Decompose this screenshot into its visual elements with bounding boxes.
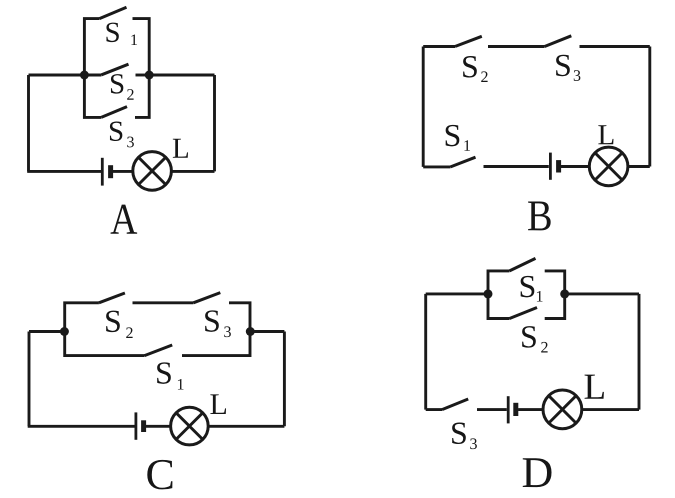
label S3 (A) [110, 121, 122, 140]
switch S2 (C) [65, 293, 125, 332]
wire C right horizontal [251, 330, 284, 333]
wire A right vertical [213, 75, 216, 171]
wire B left vertical [422, 47, 425, 167]
node right (A) [145, 71, 154, 80]
wire A battery-to-lamp [113, 170, 133, 173]
wire B top-right [580, 45, 650, 48]
label S2 (A) [111, 74, 123, 93]
label L (A) [173, 139, 188, 158]
wire D left horizontal [426, 292, 488, 295]
switch S1 blade (B) [451, 157, 476, 167]
lamp L (C) [171, 407, 209, 445]
battery B [550, 153, 558, 180]
label option B [528, 201, 551, 230]
switch S1 (A) [84, 7, 149, 75]
node left (A) [80, 71, 89, 80]
wire C bottom-right [208, 425, 284, 428]
wire A left vertical [27, 75, 30, 171]
label S3 (C) [205, 310, 219, 332]
wire C battery-to-lamp [146, 425, 171, 428]
node left (C) [60, 327, 69, 336]
node right (C) [246, 327, 255, 336]
label S2 subscript (D) [541, 342, 547, 353]
switch S1 (D) [488, 258, 565, 294]
label S2 subscript (C) [126, 327, 132, 338]
wire B S1-to-battery [484, 165, 549, 168]
wire C left horizontal [29, 330, 64, 333]
switch S1 (C) [65, 332, 250, 356]
wire D S3-to-battery [477, 408, 507, 411]
label S1 subscript (C) [178, 379, 184, 390]
wire A top-left [29, 74, 85, 77]
label S1 (C) [157, 362, 171, 384]
wire C bottom-left [28, 425, 135, 428]
lamp L (D) [543, 390, 582, 429]
label S1 subscript (A) [131, 34, 137, 45]
label S2 subscript (B) [481, 71, 487, 82]
switch S3 blade (B) [545, 36, 572, 47]
label L (C) [210, 394, 226, 414]
label L (D) [585, 375, 604, 399]
node right (D) [560, 289, 569, 298]
switch S3 blade (D) [442, 399, 468, 410]
label option D [523, 458, 552, 487]
label S3 subscript (B) [574, 70, 581, 81]
wire B bottom-left stub [423, 165, 450, 168]
wire D right horizontal [565, 292, 639, 295]
label S2 (B) [463, 56, 477, 78]
switch S2 blade (B) [455, 36, 482, 46]
label option C [147, 460, 172, 490]
label S3 (B) [556, 55, 570, 77]
wire B top-middle [488, 45, 545, 48]
wire D right vertical [638, 294, 641, 410]
label S3 subscript (C) [224, 326, 231, 337]
lamp L (A) [133, 152, 172, 191]
wire C left vertical [28, 332, 31, 427]
wire D bottom-left stub [426, 408, 442, 411]
wire D battery-to-lamp [518, 408, 544, 411]
switch S3 (C) [193, 293, 250, 332]
wire B bottom-right [628, 165, 650, 168]
label S2 (C) [106, 311, 120, 333]
switch S2 (A) [84, 64, 149, 75]
wire D bottom-right [582, 408, 639, 411]
battery D [508, 396, 516, 423]
wire C top-middle [133, 301, 194, 304]
label S1 (B) [446, 125, 460, 147]
lamp L (B) [589, 147, 628, 186]
switch S3 (A) [84, 75, 149, 117]
label option A [111, 205, 138, 234]
label S3 subscript (D) [470, 438, 477, 449]
node left (D) [484, 289, 493, 298]
label S3 subscript (A) [127, 137, 134, 148]
label S1 subscript (D) [537, 291, 543, 302]
wire C right vertical [283, 332, 286, 427]
wire A bottom-left [27, 170, 101, 173]
label S3 (D) [452, 423, 466, 445]
label L (B) [598, 125, 613, 144]
wire D left vertical [424, 294, 427, 410]
wire B top-left [423, 45, 455, 48]
battery A [102, 158, 110, 186]
switch S2 (D) [488, 294, 565, 319]
label S1 (D) [521, 276, 535, 298]
wire B battery-to-lamp [561, 165, 589, 168]
battery C [136, 412, 144, 439]
label S1 subscript (B) [464, 140, 470, 151]
label S2 (D) [522, 326, 536, 348]
wire B right vertical [648, 47, 651, 167]
label S1 (A) [106, 23, 118, 42]
wire A top-right [149, 74, 214, 77]
wire A bottom-right [171, 170, 214, 173]
label S2 subscript (A) [127, 89, 133, 100]
